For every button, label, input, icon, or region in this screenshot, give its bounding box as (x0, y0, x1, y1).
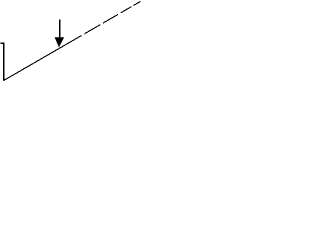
arrow pointing down onto inclined line: shaft (59, 19, 61, 38)
wire: inclined line, solid lower segment continuing as dashed extension to top right (4, 1, 141, 80)
wire: short tick at top of vertical line (1, 42, 5, 44)
arrow pointing down onto inclined line: filled head (55, 37, 65, 47)
wire: left vertical line (3, 43, 5, 81)
background (0, 0, 141, 83)
